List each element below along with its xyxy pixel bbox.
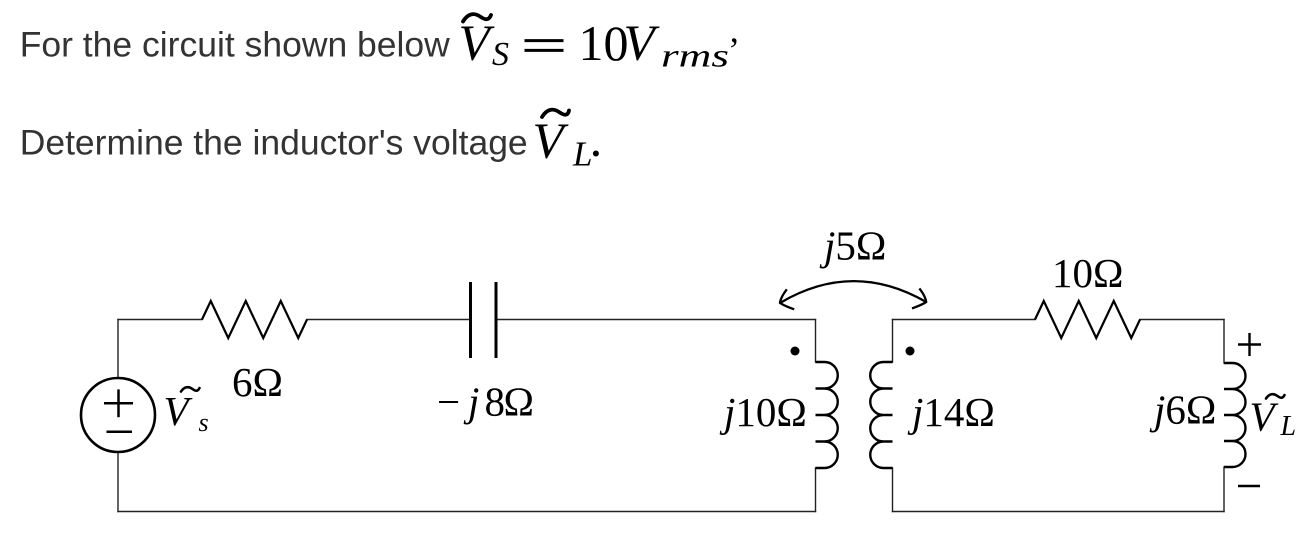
- plus polarity mark: [1238, 333, 1261, 486]
- voltage source Vs circle: [81, 378, 155, 452]
- resistor 6ohm zigzag: [202, 301, 307, 338]
- svg-text:.: .: [590, 112, 603, 168]
- svg-text:j5Ω: j5Ω: [819, 223, 886, 269]
- wire: primary coil top lead: [815, 320, 817, 363]
- svg-text:L: L: [1280, 411, 1297, 442]
- wire: right loop top rail, resistor R2 to corner: [1140, 319, 1224, 321]
- voltage source plus sign: [104, 389, 133, 431]
- wire: primary coil bottom lead: [815, 468, 817, 512]
- svg-text:V: V: [533, 114, 570, 170]
- inductor j14ohm coil: [870, 362, 892, 468]
- wire: right loop top rail, coil to resistor R2: [893, 319, 1036, 321]
- svg-text:V: V: [459, 16, 496, 72]
- resistor 10ohm zigzag: [1035, 301, 1140, 338]
- svg-text:For the circuit shown below: For the circuit shown below: [20, 25, 450, 65]
- wire: left loop bottom rail: [118, 511, 816, 513]
- svg-text:6Ω: 6Ω: [232, 359, 283, 405]
- wire: left edge below source: [117, 452, 119, 512]
- svg-text:10: 10: [579, 15, 629, 71]
- wire: top rail, capacitor C1 to primary coil corner: [496, 319, 816, 321]
- svg-text:V: V: [1250, 394, 1279, 440]
- svg-text:V: V: [624, 16, 661, 72]
- svg-text:Determine the inductor's volta: Determine the inductor's voltage: [20, 123, 528, 163]
- math VL.: [533, 110, 603, 174]
- svg-text:s: s: [199, 408, 209, 437]
- wire: left edge above source: [117, 320, 119, 379]
- svg-text:j10Ω: j10Ω: [719, 389, 807, 435]
- dot marker left coil: [791, 347, 800, 356]
- svg-text:−j8Ω: −j8Ω: [437, 379, 534, 425]
- svg-text:’: ’: [728, 30, 740, 70]
- svg-text:V: V: [164, 388, 193, 434]
- math Vs = 10Vrms: [459, 14, 741, 74]
- wire: secondary coil top lead: [892, 320, 894, 363]
- wire: top rail, resistor R1 to capacitor C1: [307, 319, 471, 321]
- capacitor -j8ohm plates: [471, 282, 497, 358]
- wire: inductor L3 top lead: [1223, 320, 1225, 364]
- svg-text:10Ω: 10Ω: [1052, 250, 1123, 296]
- svg-text:j6Ω: j6Ω: [1149, 386, 1216, 432]
- inductor j10ohm coil: [816, 362, 838, 468]
- wire: top rail, source to resistor R1: [118, 319, 202, 321]
- wire: right loop bottom rail: [893, 511, 1225, 513]
- voltage source minus sign: [107, 431, 133, 434]
- wire: secondary coil bottom lead: [892, 468, 894, 512]
- dot marker right coil: [906, 347, 915, 356]
- inductor j6ohm coil: [1224, 363, 1246, 467]
- wire: inductor L3 bottom lead: [1223, 467, 1225, 512]
- svg-text:S: S: [492, 36, 509, 73]
- svg-text:j14Ω: j14Ω: [907, 389, 995, 435]
- minus polarity mark: [1238, 485, 1260, 487]
- svg-text:rms: rms: [661, 39, 729, 75]
- mutual coupling arrow j5ohm: [780, 281, 926, 309]
